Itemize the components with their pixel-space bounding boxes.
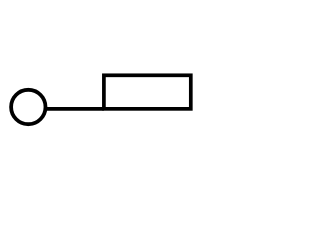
resistor (IEC box symbol) — [104, 75, 191, 109]
terminal (circle) — [11, 90, 45, 124]
wire — [44, 107, 104, 111]
